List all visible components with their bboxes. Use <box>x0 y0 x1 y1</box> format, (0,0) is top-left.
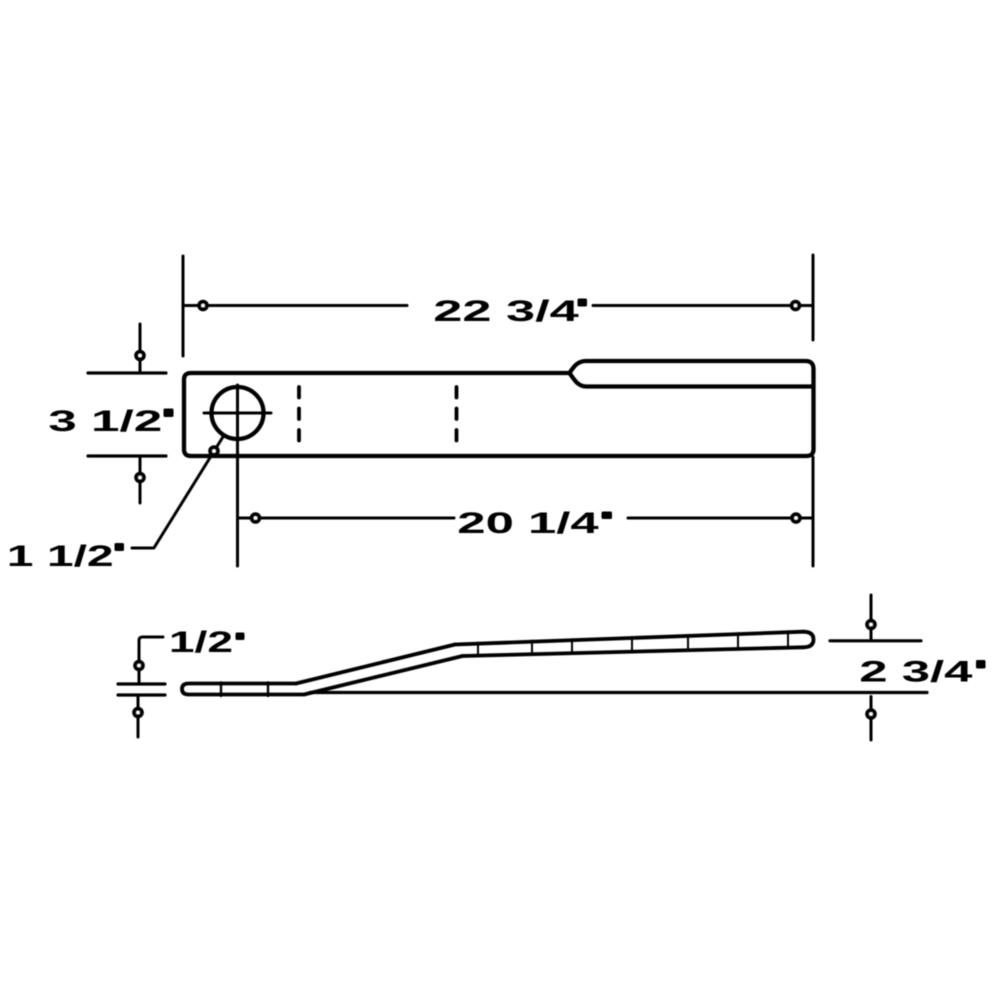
svg-text:2 3/4: 2 3/4 <box>859 654 972 688</box>
svg-text:1/2: 1/2 <box>169 626 233 659</box>
svg-text:3 1/2: 3 1/2 <box>48 404 162 438</box>
svg-text:22 3/4: 22 3/4 <box>433 294 579 328</box>
svg-text:20 1/4: 20 1/4 <box>457 506 598 540</box>
svg-text:1 1/2: 1 1/2 <box>7 540 114 573</box>
